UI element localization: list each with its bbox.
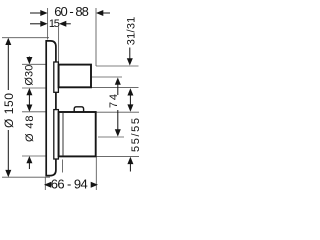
bottom knob flange line [62,112,64,156]
top knob collar [54,62,59,92]
svg-text:66 - 94: 66 - 94 [51,177,88,192]
ext vertical knob face bottom [95,157,97,190]
svg-text:74: 74 [108,94,120,108]
bottom knob collar [54,110,59,159]
ext line L6 bottom knob center [98,136,124,138]
ext Ø48 top tick [22,111,46,113]
svg-text:31/31: 31/31 [125,17,137,46]
svg-text:Ø 150: Ø 150 [2,93,16,128]
dim 66-94 left arrow [44,182,51,188]
svg-text:Ø30: Ø30 [24,65,36,86]
ext bottom tick Ø150 [2,176,50,178]
bottom knob button bump [74,107,83,112]
svg-text:Ø 48: Ø 48 [24,116,36,143]
dim 60-88 right arrow [102,12,110,14]
dim Ø150 line+arrows [7,44,9,90]
svg-text:5: 5 [54,18,60,30]
svg-text:55/55: 55/55 [130,118,142,152]
svg-text:60 - 88: 60 - 88 [54,4,89,19]
ext line L4 bottom knob top [96,111,139,113]
ext vertical wall plane [47,8,49,40]
escutcheon plate side view [46,41,56,176]
ext line L2 top knob center [92,76,122,78]
dim Ø48 arrows [26,105,32,112]
ext line L5 bottom knob bottom [96,156,140,158]
dim 31/31 leader [129,48,131,60]
dim 55/55 bottom arrow [129,163,131,172]
ext Ø48 bottom tick [22,155,46,157]
ext vertical collar face [58,27,60,62]
bottom knob body [59,112,96,156]
extension lines grey [2,8,139,190]
ext vertical small bottom [62,160,64,173]
ext Ø30 bottom tick [22,87,46,89]
dim 15 right-pointing arrow [30,23,41,25]
dim 66-94 right arrow [91,182,98,188]
dim gap double arrow [129,93,131,107]
top knob body [59,65,91,88]
ext vertical knob face top [95,8,97,66]
ext vertical plate left bottom [44,178,46,191]
dim 74 top arrow [117,84,119,95]
dim 74 bottom arrow [117,110,119,131]
product outline [46,41,95,176]
dim 60-88 left arrow [30,12,41,14]
ext Ø30 top tick [22,63,46,65]
ext top tick Ø150 [2,37,49,39]
dim 15 left-pointing arrow [66,23,71,25]
ext line L1 top knob top [96,65,139,67]
dimensions [5,10,133,188]
ext line L3 [91,87,139,89]
dim Ø30 arrows [28,57,30,59]
